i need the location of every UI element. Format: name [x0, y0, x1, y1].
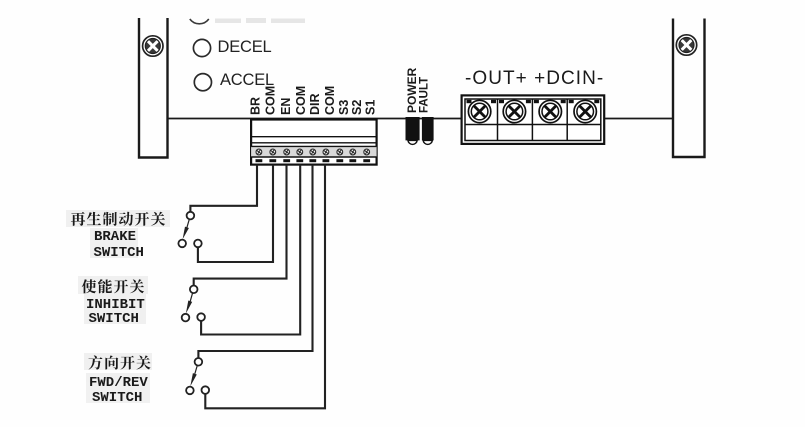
- svg-text:DIR: DIR: [308, 93, 322, 115]
- svg-text:COM: COM: [264, 86, 278, 115]
- svg-text:S1: S1: [364, 100, 378, 115]
- svg-text:COM: COM: [294, 86, 308, 115]
- svg-text:EN: EN: [279, 98, 293, 115]
- svg-text:FAULT: FAULT: [419, 77, 431, 113]
- svg-text:S3: S3: [337, 100, 351, 115]
- svg-text:BR: BR: [249, 97, 263, 115]
- svg-text:POWER: POWER: [405, 67, 419, 113]
- svg-text:COM: COM: [323, 86, 337, 115]
- svg-text:S2: S2: [350, 100, 364, 115]
